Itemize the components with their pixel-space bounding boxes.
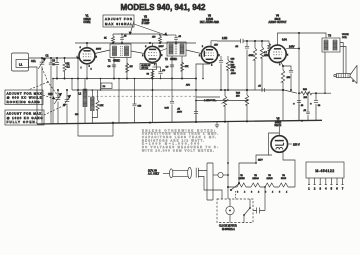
svg-text:22K: 22K [100,105,104,107]
wires T3 secondary to speaker [340,43,346,74]
svg-text:COIL: COIL [342,37,348,39]
svg-text:0.04: 0.04 [282,39,287,42]
resistor R2 [63,57,71,80]
wire V2 cathode [152,62,154,122]
capacitor C19 drop [133,78,143,123]
variable capacitor C1A (tuning gang RF) [31,57,46,124]
svg-text:455 KC: 455 KC [141,68,148,70]
B+ rail (screens) [75,42,196,44]
callout: ADJUST FOR MAX SIGNAL [103,15,167,36]
resistor R8 [180,62,189,71]
capacitor C6 [108,65,117,68]
filament pin numbers [237,192,288,194]
trimmer capacitor C1D [63,89,70,124]
resistor R13 [260,40,269,90]
fuse lamp [213,172,228,177]
svg-text:ADJUST FOR: ADJUST FOR [105,17,132,21]
clock switch contacts [243,199,251,223]
label 117V AC [148,170,160,175]
resistor R3 (osc grid) [92,90,104,118]
wire V3 cathode loop [195,63,210,122]
clock motor box (dashed) [217,199,253,223]
electrolytic C17B [310,93,321,120]
AVC rail (upper) [53,78,196,80]
svg-text:M-360121-1: M-360121-1 [222,228,236,231]
wire T1 drops [113,58,128,80]
IF transformer T1 [108,44,131,63]
filament V3 [265,175,274,187]
B- ground bus [37,120,322,124]
connector pins 1-7 [308,178,344,191]
svg-text:L1: L1 [19,62,23,66]
filament V2 [251,175,260,187]
B- distribution rail (lower) [72,89,284,91]
line switch S1 [230,162,257,191]
svg-text:A.C. ONLY: A.C. ONLY [148,173,160,176]
svg-text:47K: 47K [185,66,189,68]
label V3 [200,15,220,25]
misc value labels [52,36,191,117]
label V5 [275,118,282,127]
tube V4 50C5 output [266,45,289,67]
label V2 [142,16,150,26]
small label box [101,83,112,89]
notes: unless otherwise noted [142,128,218,152]
svg-text:117V. 60: 117V. 60 [148,170,158,172]
wire V4 plate to T3 rail [278,32,327,49]
interlock connector [196,168,198,178]
wire T1 secondary to V2 grid [131,51,145,54]
svg-text:+: + [293,102,295,106]
variable capacitor C1B (osc gang) [48,89,62,124]
switch mechanical link (dashed) [235,191,237,200]
filament V4 [279,175,288,187]
capacitor C13 [245,40,249,91]
resistor R9 (diode load) [226,56,229,91]
antenna loop L1 [12,53,29,71]
svg-text:50C5: 50C5 [281,178,287,180]
resistor R16 (filter, horizontal) [299,89,316,99]
AC line plug [163,167,192,178]
svg-text:117V: 117V [258,160,263,162]
B+ feed line [298,33,300,121]
tube V2 12BA6 IF amp [142,46,163,66]
svg-text:400V: 400V [177,112,182,114]
resistor R4 (screen dropper) [112,34,115,44]
wire V2 plate to T2 [159,46,168,51]
capacitor C3 [52,57,59,80]
svg-text:470K: 470K [249,55,254,57]
speaker LS1 [334,65,357,83]
wire V1 cathode to osc coil [85,64,88,89]
resistor R14 [236,90,249,122]
capacitor C18 (spark) [253,186,266,213]
ground symbol near C16 [215,122,219,128]
svg-text:DET. AUDIO AMP.: DET. AUDIO AMP. [200,21,220,24]
label 150V [288,143,300,147]
wire V2 top [152,43,154,46]
svg-text:ROCKING GANG: ROCKING GANG [7,100,41,104]
tube V1 12BE6 converter [77,47,98,67]
wire V3 plate coupling rail [217,38,270,52]
capacitor C7 [159,34,178,43]
svg-text:470K: 470K [231,67,236,69]
label clock motor [219,225,237,231]
capacitor C14 [282,65,293,91]
volume control R11 [196,89,229,122]
svg-text:12BA6: 12BA6 [252,177,259,180]
boxed note under V2 [140,64,157,70]
wire T2 drops [171,56,183,80]
svg-text:45V: 45V [214,45,218,47]
capacitor C9 [166,65,175,69]
callout: ADJUST FOR MAX @ 600 KC [5,90,55,105]
tube V3 12AV6 det/AVC/AF [199,46,221,67]
label V4 [268,15,287,25]
svg-text:100V: 100V [96,49,102,51]
rectifier tube V5 35W4 [271,136,288,153]
svg-text:FULLY OPEN.: FULLY OPEN. [7,120,37,124]
resistor R5 [159,34,162,44]
svg-text:RECT.: RECT. [275,124,282,127]
wire det output rung [195,100,248,102]
svg-text:CONV.: CONV. [83,21,91,24]
capacitor C5 [120,33,124,43]
capacitor C10 [219,56,223,91]
wire V1 top to B+ rail [86,43,88,48]
capacitor C12 (coupling) [235,39,243,48]
svg-text:455KC: 455KC [170,59,177,61]
IF transformer T2 [165,42,186,61]
wire stub x100 [100,78,102,91]
resistor R6 [125,63,132,72]
svg-text:1M: 1M [130,66,133,68]
wire V3 plate up [211,41,218,47]
wire osc grid drop [77,57,79,124]
capacitor C16 [177,101,198,123]
svg-text:2: 2 [91,69,92,71]
svg-text:150 V: 150 V [293,143,300,147]
svg-text:C1A: C1A [31,60,36,63]
wire V4 cathode [281,62,291,121]
svg-text:+: + [310,102,312,106]
wire T3 primary return (B+) [324,52,326,94]
label V1 [83,15,91,25]
wire V5 cathode to heater string [283,152,295,188]
resistor R12 [249,40,257,90]
wires plug to circuit [198,171,222,200]
svg-text:IF AMP: IF AMP [142,22,150,25]
capacitor C15 [165,79,175,123]
wire drop x119 [118,78,120,123]
AVC line (dashed) [88,95,196,97]
svg-text:M-454122: M-454122 [315,169,334,173]
gang linkage (dashed) [28,68,58,96]
wire loop below bus [78,121,113,136]
wire rail link [71,78,73,90]
wire top link [113,33,160,35]
clock motor M [226,199,234,223]
wire T2 to V3 grid [186,50,201,54]
svg-text:C1B: C1B [48,94,53,96]
svg-text:12BE6: 12BE6 [238,178,245,180]
oscillator coil L2 [79,89,88,123]
terminal connector M-454122 [306,162,344,178]
svg-text:AUDIO OUTPUT: AUDIO OUTPUT [268,21,287,24]
electrolytic C17A [293,100,304,121]
resistor R7 [147,71,155,78]
heater string wire [227,186,295,188]
callout: ADJUST FOR MAX @ 1620 KC [5,104,66,125]
output transformer T3 [322,33,349,52]
title: MODELS 940, 941, 942 [121,2,206,12]
wire V4 screen to B+ [286,48,300,50]
filament V1 [237,175,246,187]
svg-text:.0033: .0033 [231,73,237,75]
svg-text:VOICE: VOICE [342,34,349,36]
svg-text:MAX SIGNAL: MAX SIGNAL [105,22,132,26]
svg-text:2.2M: 2.2M [222,38,227,40]
wire antenna top to V1 grid [29,57,80,59]
wire V1 plate to T1 [95,49,110,54]
svg-text:AVC: AVC [186,84,191,87]
capacitor C8 [153,67,166,79]
wire loop [207,163,213,200]
svg-text:100V: 100V [159,46,165,48]
capacitor C18b [303,92,310,120]
wire to clock [227,122,229,199]
wire rail B inline cap [258,86,297,94]
svg-text:7: 7 [81,68,82,70]
wire filter rail [315,92,331,94]
capacitor C2 [46,56,54,124]
osc coil secondary [91,89,95,123]
svg-text:MODELS 940, 941, 942: MODELS 940, 941, 942 [121,2,206,12]
wire antenna bottom to ground bus [29,67,38,124]
wire V5 plate up [278,121,280,136]
svg-text:12AV6: 12AV6 [266,177,273,180]
wire drop x53 [52,78,54,124]
detector labels column [231,59,237,76]
wire V5 left loop [256,133,279,163]
